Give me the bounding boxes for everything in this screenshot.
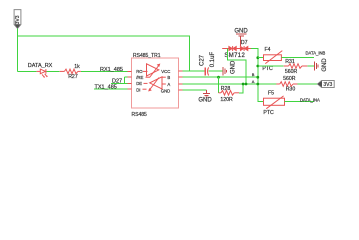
wire F5 out / DATA_INA stub bbox=[285, 101, 315, 103]
node D7 left junction bbox=[245, 83, 248, 86]
svg-text:/RE: /RE bbox=[136, 75, 143, 80]
fuse F4 PTC bbox=[258, 47, 283, 72]
resistor R28 120R bbox=[219, 86, 240, 103]
pin /RE bbox=[127, 76, 131, 78]
svg-text:3V3: 3V3 bbox=[15, 15, 21, 24]
svg-text:GND: GND bbox=[198, 97, 212, 103]
wire D27 net stub bbox=[111, 77, 127, 84]
wire R31 to ground bbox=[307, 65, 314, 67]
wire 3V3 down to LED bbox=[17, 36, 19, 71]
pin DI bbox=[127, 88, 131, 90]
wire from main vertical to R31 bbox=[258, 65, 284, 67]
wire R28 left drop bbox=[218, 77, 220, 93]
svg-text:0.1uF: 0.1uF bbox=[210, 52, 216, 68]
fuse F5 PTC bbox=[263, 90, 284, 116]
svg-text:DATA_INA: DATA_INA bbox=[300, 97, 320, 102]
svg-text:GND: GND bbox=[322, 58, 328, 72]
svg-text:DATA_RX: DATA_RX bbox=[28, 63, 53, 69]
resistor R27 1k bbox=[60, 64, 81, 80]
ground sideways at R31 bbox=[314, 58, 328, 72]
wire RO internal bbox=[143, 70, 148, 72]
svg-text:A: A bbox=[252, 79, 255, 84]
svg-text:B: B bbox=[167, 75, 170, 80]
wire C27 to GND bbox=[208, 70, 222, 72]
node A row junction bbox=[256, 83, 259, 86]
node R28 right junction bbox=[242, 83, 245, 86]
wire LED to R27 bbox=[46, 70, 59, 72]
svg-text:F4: F4 bbox=[265, 47, 271, 53]
wire /RE internal bbox=[146, 76, 150, 78]
svg-text:VCC: VCC bbox=[161, 69, 170, 74]
LED DATA_RX bbox=[28, 63, 53, 78]
svg-text:A: A bbox=[167, 82, 170, 87]
ground sideways at C27 bbox=[223, 60, 236, 76]
wire DE internal bbox=[144, 82, 148, 84]
pin VCC bbox=[179, 70, 183, 72]
wire F4 out / DATA_INB stub bbox=[281, 57, 314, 59]
svg-text:PTC: PTC bbox=[262, 66, 273, 72]
wire R28 right up to A bbox=[239, 84, 243, 93]
pin DE bbox=[127, 82, 131, 84]
op-amp U1 RS485_TR1 box bbox=[132, 53, 179, 118]
svg-text:RS485_TR1: RS485_TR1 bbox=[133, 53, 161, 59]
svg-text:B: B bbox=[252, 72, 255, 77]
TVS diode D7 SM712 bbox=[222, 40, 251, 59]
pin A bbox=[179, 83, 183, 85]
svg-text:R27: R27 bbox=[68, 74, 78, 80]
svg-text:560R: 560R bbox=[285, 69, 298, 75]
wire B internal bbox=[162, 76, 166, 78]
wire DI internal bbox=[143, 88, 147, 90]
wire GND pin down bbox=[183, 89, 207, 91]
node F4 tap junction bbox=[256, 56, 259, 59]
ground below U1 bbox=[198, 94, 212, 104]
svg-text:PTC: PTC bbox=[263, 110, 274, 116]
svg-text:1k: 1k bbox=[74, 64, 80, 70]
svg-text:DATA_INB: DATA_INB bbox=[306, 51, 326, 56]
wire R30 to 3V3 bbox=[298, 83, 319, 85]
node R31 tap junction bbox=[256, 65, 259, 68]
svg-text:GND: GND bbox=[230, 60, 236, 74]
wire RX1_485 net bbox=[81, 70, 127, 72]
ground above D7 bbox=[234, 28, 248, 46]
svg-text:3V3: 3V3 bbox=[323, 82, 332, 88]
svg-text:RO: RO bbox=[136, 69, 143, 74]
svg-text:R30: R30 bbox=[286, 87, 296, 93]
resistor R30 560R bbox=[276, 76, 297, 93]
pin RO bbox=[127, 70, 131, 72]
power flag 3V3 right bbox=[317, 81, 334, 88]
svg-text:DE: DE bbox=[136, 81, 142, 86]
capacitor C27 0.1uF bbox=[200, 52, 216, 76]
svg-text:D7: D7 bbox=[241, 40, 248, 46]
wire A internal bbox=[162, 83, 166, 85]
svg-text:DI: DI bbox=[136, 87, 140, 92]
transceiver gate symbols inside U1 bbox=[147, 64, 163, 92]
svg-text:TX1_485: TX1_485 bbox=[95, 84, 117, 90]
power flag 3V3 left bbox=[14, 10, 21, 36]
svg-text:F5: F5 bbox=[268, 90, 274, 96]
node R28 left junction bbox=[217, 76, 220, 79]
svg-text:120R: 120R bbox=[220, 97, 233, 103]
svg-text:560R: 560R bbox=[283, 76, 296, 82]
resistor R31 560R bbox=[284, 59, 308, 75]
wire TX1_485 net bbox=[94, 88, 127, 90]
pin GND bbox=[179, 89, 183, 91]
wire D7 left pin Z-route to A bbox=[228, 48, 247, 84]
pin B bbox=[179, 76, 183, 78]
wire VCC to C27 bbox=[183, 70, 205, 72]
svg-text:C27: C27 bbox=[200, 54, 206, 66]
node B row end junction bbox=[256, 76, 259, 79]
wire 3V3 top rail bbox=[18, 36, 190, 71]
wire D7 output down the main vertical bbox=[251, 49, 264, 102]
wire A row bbox=[183, 83, 277, 85]
svg-text:RX1_485: RX1_485 bbox=[100, 67, 123, 73]
wire B row bbox=[183, 76, 258, 78]
wire to LED anode bbox=[18, 70, 37, 72]
svg-text:RS485: RS485 bbox=[132, 112, 148, 118]
